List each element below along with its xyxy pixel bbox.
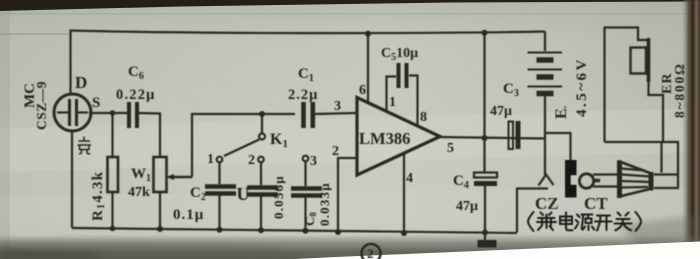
svg-text:C510μ: C510μ	[381, 46, 418, 63]
capacitor C8 0.033u	[304, 162, 306, 186]
svg-text:47μ: 47μ	[490, 104, 512, 119]
svg-text:2: 2	[367, 246, 374, 259]
wire: C5 to pin 8	[409, 76, 418, 127]
svg-text:1: 1	[389, 95, 396, 110]
svg-text:0.1μ: 0.1μ	[173, 207, 204, 223]
plug CT tip	[579, 174, 593, 188]
wire: pin6 to rail	[367, 34, 369, 105]
ground rail	[72, 228, 517, 233]
wire: mic case to ground rail	[71, 130, 73, 228]
label case (ke) hand-drawn 壳	[78, 137, 92, 155]
microphone MC CSZ-9	[54, 94, 91, 131]
hanzi kai	[595, 216, 612, 231]
resistor R1 4.3k	[111, 113, 113, 157]
wire: pin 4 to ground	[403, 152, 405, 233]
wire: battery minus down	[544, 96, 546, 175]
earphone assembly rail segment	[605, 28, 649, 143]
capacitor C4 47u	[474, 173, 497, 178]
svg-text:2: 2	[332, 144, 339, 159]
jack CZ switch contact	[539, 175, 554, 186]
right edge dark band	[682, 0, 700, 248]
op-amp U1 LM386	[357, 98, 440, 176]
svg-text:CZ: CZ	[535, 194, 559, 213]
svg-text:47μ: 47μ	[456, 199, 478, 214]
node: C2 on ground rail	[217, 227, 223, 233]
capacitor C6 0.22u	[129, 102, 137, 128]
svg-text:3: 3	[310, 154, 317, 169]
svg-text:CT: CT	[584, 194, 608, 213]
paren )	[636, 212, 642, 231]
svg-text:0.22μ: 0.22μ	[116, 87, 156, 103]
svg-text:6: 6	[359, 83, 366, 98]
ground symbol	[478, 240, 497, 248]
node: C8 on ground rail	[303, 228, 309, 234]
svg-text:R14.3k: R14.3k	[90, 171, 107, 221]
potentiometer W1 47k	[154, 157, 167, 192]
svg-text:47k: 47k	[128, 185, 150, 200]
svg-text:U: U	[237, 184, 250, 204]
node: K1 junction on bus	[259, 111, 265, 117]
label (jian dian yuan kai guan) hand-drawn 兼电源开关 with parens	[528, 212, 641, 231]
hanzi yuan	[575, 215, 594, 231]
svg-text:1: 1	[207, 152, 214, 167]
hanzi dian	[560, 213, 573, 231]
svg-text:0.056μ: 0.056μ	[271, 175, 286, 219]
plug CT grip cone	[617, 161, 654, 199]
battery E 4.5~6V	[544, 32, 546, 52]
wire: C1 to pin 3	[315, 113, 356, 114]
svg-text:LM386: LM386	[359, 129, 410, 148]
wire: pin 2 to ground	[338, 158, 356, 232]
paren (	[528, 212, 534, 231]
capacitor C5 10u	[399, 63, 407, 88]
bottom dark gradient band	[0, 235, 700, 259]
switch contact 2	[258, 157, 264, 163]
capacitor C7 0.056u	[260, 163, 262, 185]
node: rail/pin6 junction	[365, 31, 371, 37]
earphone ER	[647, 38, 651, 82]
node: pin2 ground junction	[335, 229, 341, 235]
svg-text:8: 8	[420, 110, 427, 125]
figure number 2	[362, 244, 381, 259]
wire: C4 branch from rail	[483, 33, 485, 173]
jack CZ body	[565, 160, 578, 198]
node: C4 on ground rail	[482, 230, 488, 236]
wire: wiper up to K1 bus	[192, 114, 295, 177]
svg-text:4: 4	[406, 171, 413, 186]
wire: top V+ rail from mic D corner to battery	[71, 31, 546, 95]
wire: pin 5 output	[437, 137, 545, 139]
svg-text:CSZ—9: CSZ—9	[34, 81, 49, 130]
switch contact 3	[303, 156, 309, 162]
capacitor C3 47u	[509, 122, 514, 150]
node: pin4 ground junction	[401, 230, 407, 236]
svg-text:D: D	[75, 73, 87, 92]
bottom white wedge	[295, 242, 700, 259]
wire: earphone cord loop	[649, 82, 664, 142]
node: output/C4 crossing	[482, 135, 488, 141]
svg-text:8~800Ω: 8~800Ω	[672, 62, 687, 118]
wire: branch to CZ sleeve	[545, 133, 571, 160]
plug CT shaft	[593, 173, 618, 175]
wire: pin1 / C5 loop left	[387, 77, 397, 113]
switch contact 1	[217, 157, 223, 163]
switch K1	[261, 114, 263, 133]
left edge soft shading	[0, 0, 10, 259]
faint scan streaks	[0, 13, 700, 15]
svg-text:5: 5	[447, 141, 454, 156]
svg-text:S: S	[92, 95, 100, 111]
hanzi jian	[537, 213, 556, 231]
node: W on ground rail	[157, 226, 163, 232]
wire: C6 to W top	[139, 113, 160, 157]
dark top scan wedge	[0, 0, 700, 11]
capacitor C2 0.1u	[218, 163, 220, 184]
svg-text:0.033μ: 0.033μ	[317, 182, 332, 226]
capacitor C1 2.2u	[304, 102, 313, 128]
wire: mic S output	[89, 112, 128, 114]
svg-text:4.5~6V: 4.5~6V	[574, 57, 590, 117]
svg-text:2.2μ: 2.2μ	[288, 87, 318, 103]
node: C7 on ground rail	[258, 227, 264, 233]
svg-text:3: 3	[334, 99, 341, 114]
wire: W wiper arm	[169, 176, 192, 178]
node: R1 on ground rail	[110, 226, 116, 232]
svg-text:2: 2	[248, 153, 255, 168]
hanzi guan	[615, 213, 632, 231]
node: rail/C4-branch junction	[482, 30, 488, 36]
node: R1 tap on input wire	[110, 110, 116, 116]
